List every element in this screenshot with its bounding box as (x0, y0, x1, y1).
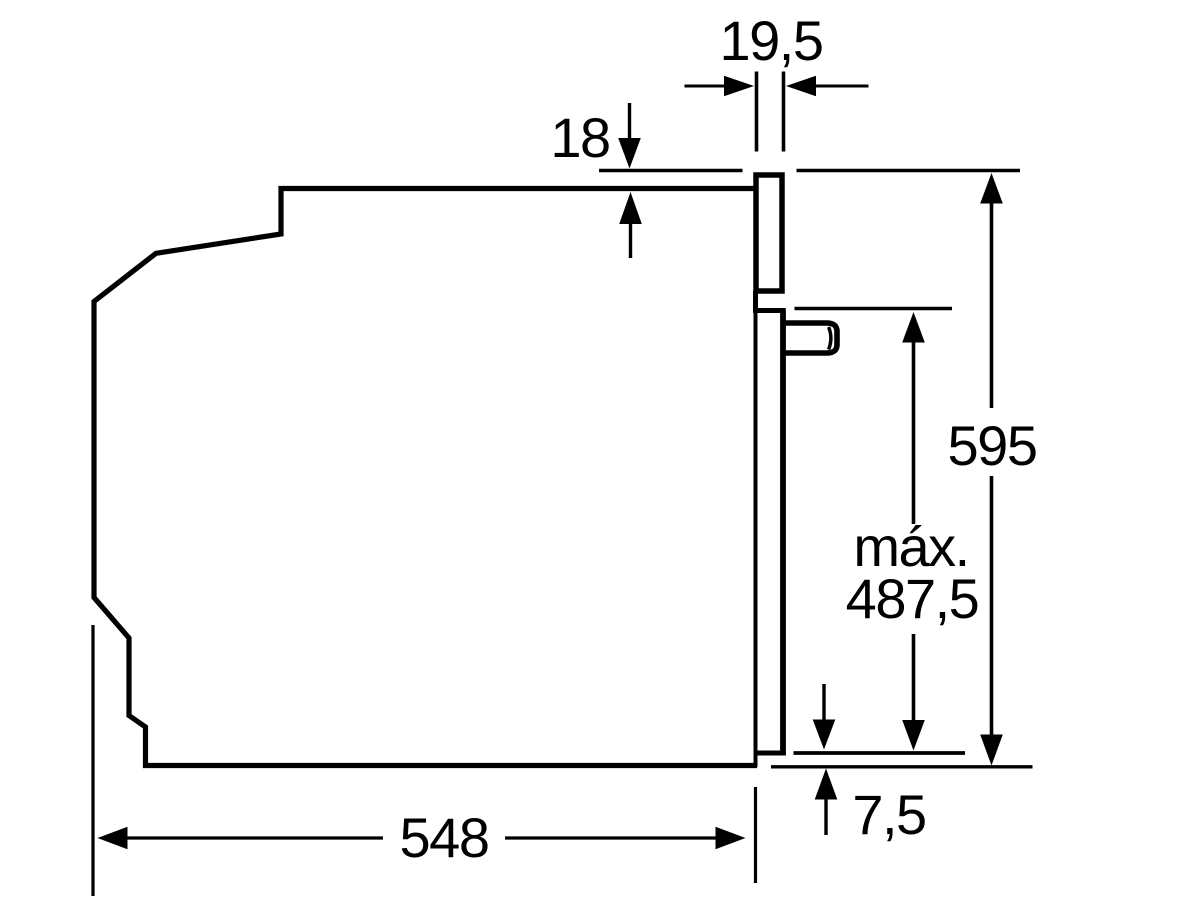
svg-text:19,5: 19,5 (720, 9, 823, 72)
595 top arrowhead (980, 173, 1003, 204)
18 up arrowhead (619, 192, 642, 224)
7,5 up arrowhead (815, 769, 838, 800)
18 down arrow shaft (628, 103, 631, 140)
knob inner arc (829, 327, 831, 350)
487,5 top arrowhead (902, 312, 925, 343)
bottom right step (754, 751, 758, 768)
548 dim line left segment (126, 836, 383, 839)
door bottom edge (755, 751, 786, 756)
svg-text:595: 595 (948, 414, 1037, 477)
svg-text:487,5: 487,5 (846, 567, 979, 630)
19,5 right arrowhead (786, 76, 816, 97)
door front face (780, 311, 786, 756)
19,5 extension line left (755, 72, 759, 152)
548 left extension line (91, 625, 94, 896)
countertop line right of panel (797, 169, 1021, 172)
step below control panel (753, 291, 786, 311)
knob (784, 323, 837, 353)
595 dim line upper segment (990, 202, 994, 408)
548 dim line right segment (505, 836, 717, 839)
18 up arrow shaft (629, 224, 632, 258)
7,5 up arrow shaft (824, 799, 827, 835)
control panel rectangle (756, 175, 782, 291)
19,5 left arrowhead (724, 76, 754, 97)
548 right arrowhead (716, 827, 746, 850)
floor extension line (771, 765, 1033, 768)
548 left arrowhead (98, 827, 128, 850)
19,5 right dim line (814, 85, 869, 88)
7,5 down arrowhead (813, 720, 836, 750)
487,5 dim line upper segment (912, 342, 916, 524)
svg-text:18: 18 (550, 106, 609, 169)
19,5 extension line right (782, 72, 786, 152)
548 right extension line (754, 787, 757, 883)
svg-text:7,5: 7,5 (852, 783, 925, 846)
door bottom extension line (794, 751, 966, 755)
svg-text:548: 548 (400, 806, 489, 869)
countertop line left of panel (599, 169, 743, 172)
19,5 left dim line (685, 85, 727, 88)
oven cavity front line (754, 313, 758, 755)
487,5 dim line lower segment (912, 634, 916, 720)
18 down arrowhead (618, 138, 641, 169)
7,5 down arrow shaft (822, 684, 825, 721)
oven body outline (94, 189, 757, 766)
487,5 top extension line (795, 307, 953, 310)
595 dim line lower segment (990, 476, 994, 735)
487,5 bottom arrowhead (902, 720, 925, 751)
595 bottom arrowhead (980, 735, 1003, 766)
